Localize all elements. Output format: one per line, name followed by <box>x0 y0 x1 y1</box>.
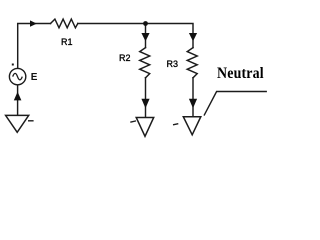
label E <box>31 72 38 83</box>
current arrow above R2 ground (down) <box>141 99 149 109</box>
sine symbol inside source <box>13 73 23 79</box>
wire from R1 to R3 corner <box>78 24 193 48</box>
current arrow R3 branch (down) <box>189 33 197 41</box>
ground under R2 <box>136 118 154 137</box>
wire R3 branch bottom <box>192 78 194 117</box>
Neutral callout leader line <box>204 92 267 116</box>
wire R2 branch top <box>145 24 147 48</box>
label R1 <box>61 37 73 47</box>
tick at E ground <box>28 120 34 122</box>
wire source bottom <box>17 85 19 115</box>
wire R2 branch bottom <box>145 78 147 117</box>
junction dot node A <box>143 21 148 26</box>
tick at R2 ground <box>130 121 136 122</box>
resistor R1 <box>51 19 78 28</box>
tick at R3 ground <box>173 124 178 125</box>
resistor R2 <box>140 48 150 78</box>
wire top horizontal from source corner to R1 <box>18 24 51 69</box>
AC source E <box>9 68 25 84</box>
current arrow on top wire (right) <box>30 20 37 26</box>
resistor R3 <box>187 48 197 78</box>
current arrow above R3 ground (down) <box>189 99 197 109</box>
ground under R3 <box>183 117 201 135</box>
label R2 <box>119 53 131 63</box>
current arrow R2 branch (down) <box>141 33 149 41</box>
asterisk dot near source <box>12 64 14 66</box>
label R3 <box>167 59 179 69</box>
ground under E <box>6 115 29 132</box>
label Neutral <box>217 65 264 83</box>
current arrow above E ground (up) <box>14 92 22 101</box>
